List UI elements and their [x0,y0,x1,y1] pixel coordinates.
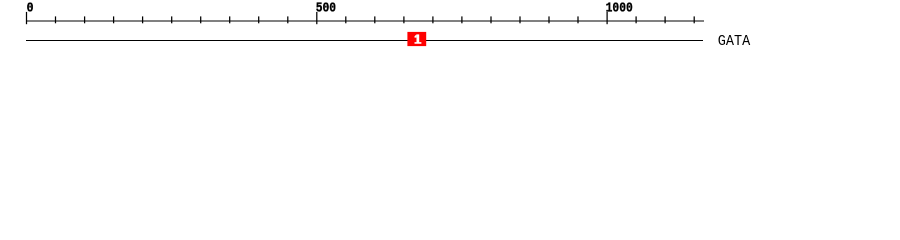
svg-text:GATA: GATA [718,33,750,50]
major tick 0 [26,12,28,24]
minor ticks group 3 [636,16,694,23]
feature box [407,32,426,46]
major tick 500 [316,12,318,24]
ruler axis line [26,20,704,22]
svg-text:0: 0 [27,0,34,16]
svg-text:1000: 1000 [606,0,633,16]
major tick 1000 [606,12,608,24]
feature number 1 [415,34,422,43]
minor ticks group 2 [346,16,578,23]
sequence line [26,39,703,41]
svg-text:500: 500 [316,0,336,16]
minor ticks group 1 [56,16,288,23]
